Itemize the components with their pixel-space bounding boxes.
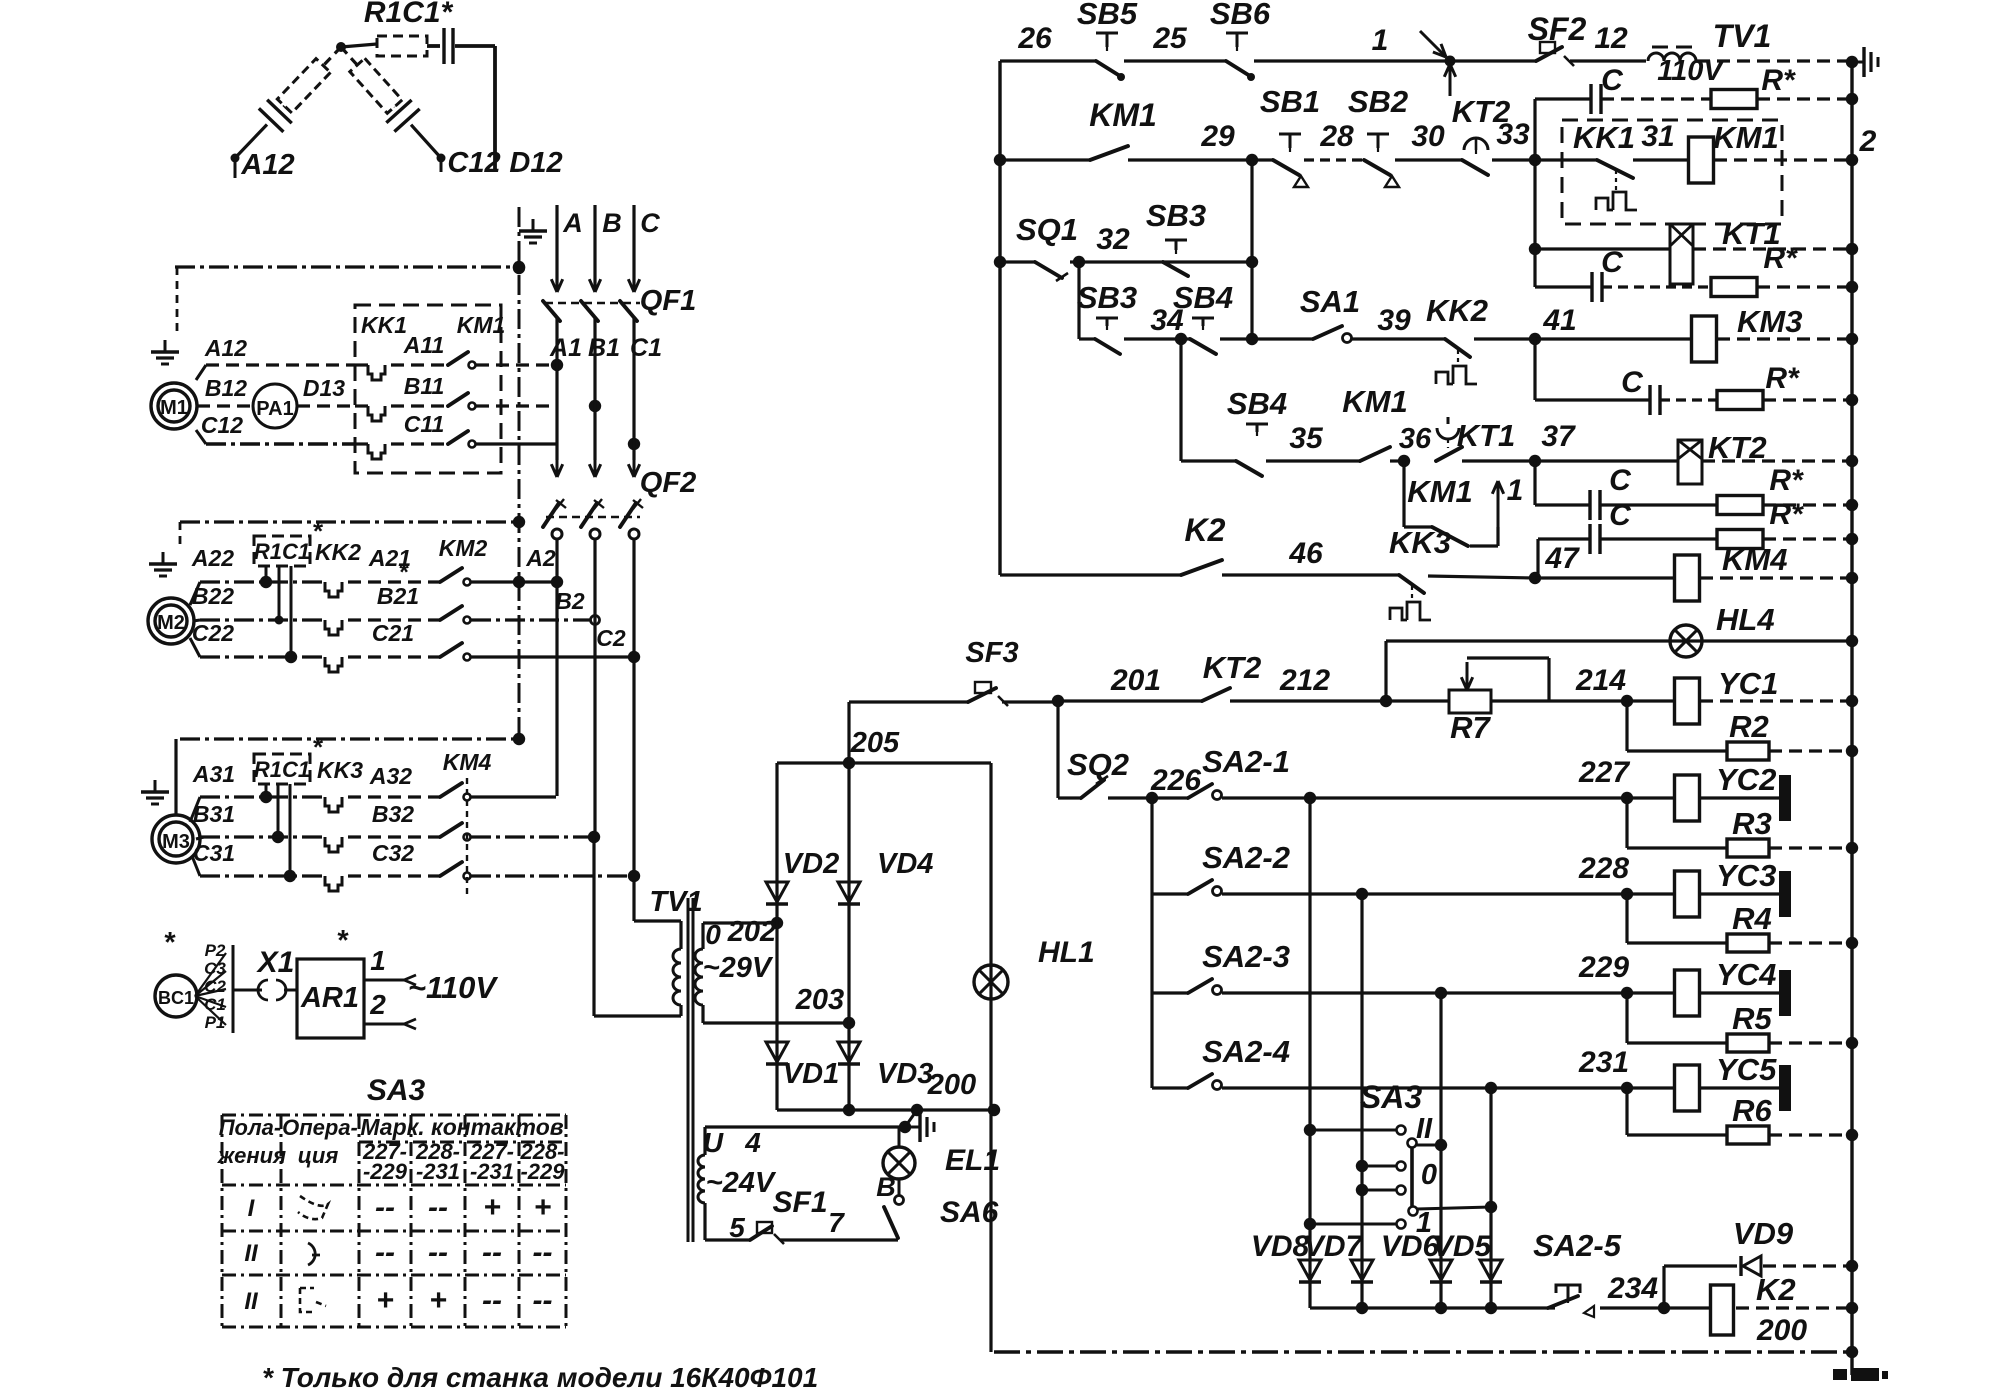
svg-text:TV1: TV1 (649, 886, 702, 918)
svg-text:A1: A1 (549, 334, 582, 362)
svg-text:VD5: VD5 (1433, 1230, 1493, 1263)
svg-text:C2: C2 (204, 977, 226, 996)
svg-text:*: * (337, 925, 349, 957)
svg-text:227: 227 (1578, 756, 1630, 789)
svg-text:25: 25 (1152, 22, 1188, 55)
svg-text:VD2: VD2 (783, 848, 839, 880)
svg-text:0: 0 (1421, 1159, 1437, 1191)
svg-text:B1: B1 (588, 334, 620, 362)
svg-text:C32: C32 (372, 840, 414, 866)
svg-text:5: 5 (729, 1212, 745, 1243)
svg-text:0: 0 (705, 919, 721, 950)
svg-text:II: II (244, 1288, 259, 1315)
svg-text:SA3: SA3 (1360, 1079, 1422, 1115)
svg-text:-231: -231 (416, 1159, 460, 1184)
svg-text:II: II (1416, 1113, 1433, 1145)
svg-text:II: II (244, 1240, 259, 1267)
svg-text:M1: M1 (160, 397, 188, 419)
svg-text:-229: -229 (520, 1159, 565, 1184)
svg-text:TV1: TV1 (1713, 18, 1772, 54)
svg-text:B22: B22 (192, 583, 234, 609)
svg-text:R1C1: R1C1 (254, 757, 310, 782)
svg-text:-231: -231 (470, 1159, 514, 1184)
svg-text:--: -- (428, 1191, 448, 1224)
svg-text:202: 202 (727, 916, 776, 948)
svg-text:31: 31 (1641, 120, 1674, 153)
svg-text:SA6: SA6 (940, 1196, 999, 1229)
svg-text:231: 231 (1578, 1046, 1629, 1079)
svg-text:SA2-2: SA2-2 (1202, 840, 1290, 875)
svg-text:YC3: YC3 (1716, 858, 1776, 893)
svg-text:R2: R2 (1729, 709, 1769, 744)
svg-text:M3: M3 (162, 831, 190, 853)
svg-text:HL1: HL1 (1038, 936, 1095, 969)
svg-text:M2: M2 (157, 612, 185, 634)
svg-text:VD9: VD9 (1733, 1216, 1794, 1251)
svg-text:KM3: KM3 (1737, 304, 1802, 339)
svg-text:C1: C1 (630, 334, 662, 362)
svg-text:226: 226 (1150, 764, 1201, 797)
svg-text:37: 37 (1541, 420, 1576, 453)
svg-text:Опера-: Опера- (282, 1115, 358, 1140)
svg-text:* Только для станка модели 16К: * Только для станка модели 16К40Ф101 (262, 1362, 818, 1393)
svg-text:SQ2: SQ2 (1067, 747, 1129, 782)
svg-text:YC5: YC5 (1716, 1052, 1777, 1087)
svg-text:C31: C31 (193, 840, 235, 866)
svg-text:VD6: VD6 (1381, 1230, 1440, 1263)
svg-text:1: 1 (1507, 474, 1524, 507)
svg-text:A2: A2 (525, 545, 556, 571)
svg-text:234: 234 (1607, 1272, 1658, 1305)
svg-text:--: -- (533, 1284, 553, 1317)
svg-text:--: -- (482, 1236, 502, 1269)
svg-text:Марк. контактов: Марк. контактов (360, 1114, 563, 1140)
svg-text:C: C (1609, 499, 1632, 532)
svg-text:2: 2 (369, 989, 386, 1020)
svg-text:R7: R7 (1450, 710, 1491, 745)
svg-text:Пола-: Пола- (219, 1115, 282, 1140)
svg-text:229: 229 (1578, 951, 1629, 984)
svg-text:--: -- (533, 1236, 553, 1269)
svg-text:C: C (1601, 246, 1624, 279)
svg-text:26: 26 (1017, 22, 1052, 55)
svg-text:KK3: KK3 (1389, 525, 1451, 560)
svg-text:--: -- (375, 1191, 395, 1224)
svg-text:K2: K2 (1185, 512, 1226, 548)
svg-text:32: 32 (1096, 223, 1130, 256)
svg-text:C: C (1621, 366, 1644, 399)
svg-text:SA2-4: SA2-4 (1202, 1034, 1290, 1069)
svg-text:A22: A22 (191, 545, 234, 571)
svg-text:-229: -229 (363, 1159, 408, 1184)
svg-text:C: C (1601, 64, 1624, 97)
svg-text:R*: R* (1763, 242, 1798, 275)
svg-text:SB3: SB3 (1146, 198, 1206, 233)
svg-text:C21: C21 (372, 620, 414, 646)
svg-text:B: B (602, 208, 622, 238)
svg-text:KT2: KT2 (1203, 650, 1262, 685)
svg-text:R*: R* (1765, 362, 1800, 395)
svg-text:+: + (429, 1284, 447, 1317)
svg-text:SQ1: SQ1 (1016, 212, 1078, 247)
svg-text:SF2: SF2 (1528, 11, 1587, 47)
svg-text:EL1: EL1 (945, 1144, 1000, 1177)
svg-text:205: 205 (850, 727, 900, 759)
svg-text:7: 7 (828, 1207, 845, 1238)
svg-text:--: -- (482, 1284, 502, 1317)
svg-text:+: + (483, 1191, 501, 1224)
svg-text:KK3: KK3 (317, 757, 363, 783)
svg-text:YC2: YC2 (1716, 762, 1776, 797)
svg-text:KK2: KK2 (315, 539, 361, 565)
svg-text:--: -- (375, 1236, 395, 1269)
svg-text:~29V: ~29V (703, 952, 774, 984)
svg-text:R*: R* (1769, 498, 1804, 531)
svg-text:B32: B32 (372, 801, 414, 827)
svg-text:C1: C1 (204, 995, 226, 1014)
svg-text:жения: жения (217, 1143, 286, 1168)
svg-text:U: U (703, 1127, 724, 1158)
svg-text:SA2-5: SA2-5 (1533, 1228, 1622, 1263)
svg-text:4: 4 (744, 1127, 761, 1158)
svg-text:QF1: QF1 (640, 285, 696, 317)
svg-text:+: + (376, 1284, 394, 1317)
svg-text:R4: R4 (1732, 901, 1772, 936)
svg-text:SA3: SA3 (367, 1074, 426, 1107)
svg-text:ция: ция (298, 1143, 339, 1168)
svg-text:P2: P2 (205, 941, 226, 960)
svg-text:VD4: VD4 (877, 848, 933, 880)
svg-text:KM1: KM1 (1713, 120, 1778, 155)
svg-text:A12: A12 (204, 335, 247, 361)
svg-text:39: 39 (1377, 304, 1411, 337)
svg-text:KM4: KM4 (1722, 542, 1787, 577)
svg-text:12: 12 (1594, 22, 1628, 55)
svg-text:C: C (1609, 464, 1632, 497)
svg-text:P1: P1 (205, 1013, 226, 1032)
svg-text:R*: R* (1761, 64, 1796, 97)
svg-text:46: 46 (1288, 537, 1323, 570)
svg-text:B2: B2 (555, 588, 585, 614)
svg-text:C22: C22 (192, 620, 234, 646)
svg-text:SF3: SF3 (965, 637, 1018, 669)
svg-text:R1C1: R1C1 (254, 539, 310, 564)
svg-text:A12: A12 (240, 149, 294, 181)
svg-text:KK2: KK2 (1426, 293, 1488, 328)
svg-text:KM4: KM4 (443, 749, 492, 775)
svg-text:VD8: VD8 (1251, 1230, 1310, 1263)
svg-text:R3: R3 (1732, 806, 1772, 841)
svg-text:SA1: SA1 (1300, 284, 1360, 319)
svg-text:A11: A11 (403, 332, 445, 358)
svg-text:KK1: KK1 (1573, 120, 1635, 155)
svg-text:C11: C11 (404, 411, 445, 437)
svg-text:YC1: YC1 (1718, 666, 1778, 701)
svg-text:29: 29 (1200, 120, 1235, 153)
svg-text:C12: C12 (447, 147, 500, 179)
svg-text:AR1: AR1 (300, 982, 359, 1014)
svg-text:SB4: SB4 (1173, 280, 1233, 315)
svg-text:B21: B21 (377, 583, 419, 609)
svg-text:PA1: PA1 (256, 398, 293, 420)
svg-text:KM1: KM1 (1089, 97, 1157, 133)
svg-text:B31: B31 (193, 801, 235, 827)
svg-text:1: 1 (1372, 24, 1389, 57)
svg-text:YC4: YC4 (1716, 957, 1776, 992)
svg-text:R1C1*: R1C1* (364, 0, 454, 29)
svg-text:2: 2 (1859, 125, 1877, 158)
svg-text:212: 212 (1279, 664, 1330, 697)
svg-text:201: 201 (1110, 664, 1161, 697)
svg-text:41: 41 (1542, 304, 1576, 337)
svg-text:214: 214 (1575, 664, 1626, 697)
svg-text:HL4: HL4 (1716, 602, 1775, 637)
svg-text:KM1: KM1 (1342, 384, 1407, 419)
svg-text:C2: C2 (596, 625, 626, 651)
svg-text:*: * (164, 927, 176, 959)
svg-text:A: A (562, 208, 583, 238)
svg-text:SB3: SB3 (1077, 280, 1137, 315)
svg-text:200: 200 (927, 1069, 976, 1101)
svg-text:~24V: ~24V (706, 1167, 777, 1199)
svg-text:+: + (534, 1191, 552, 1224)
svg-text:D12: D12 (509, 147, 562, 179)
svg-text:R*: R* (1769, 464, 1804, 497)
svg-text:R6: R6 (1732, 1093, 1772, 1128)
svg-text:BC1: BC1 (158, 988, 194, 1008)
svg-text:A32: A32 (369, 763, 412, 789)
svg-text:VD3: VD3 (877, 1058, 933, 1090)
svg-text:36: 36 (1399, 423, 1432, 455)
svg-text:VD1: VD1 (783, 1058, 839, 1090)
svg-text:X1: X1 (256, 946, 295, 979)
svg-text:VD7: VD7 (1304, 1230, 1364, 1263)
svg-text:KT1: KT1 (1457, 418, 1516, 453)
svg-text:C3: C3 (204, 959, 226, 978)
svg-text:R5: R5 (1732, 1001, 1772, 1036)
svg-text:35: 35 (1289, 422, 1324, 455)
svg-text:SB6: SB6 (1210, 0, 1271, 31)
svg-text:30: 30 (1411, 120, 1445, 153)
svg-text:110V: 110V (1657, 55, 1725, 87)
svg-text:SB2: SB2 (1348, 84, 1408, 119)
svg-text:~110V: ~110V (408, 970, 499, 1005)
svg-text:SB1: SB1 (1260, 84, 1320, 119)
svg-text:47: 47 (1544, 542, 1580, 575)
svg-text:KM1: KM1 (1407, 474, 1472, 509)
svg-text:KM2: KM2 (439, 535, 488, 561)
svg-text:228: 228 (1578, 852, 1629, 885)
svg-text:KT2: KT2 (1708, 430, 1767, 465)
svg-text:33: 33 (1496, 118, 1530, 151)
svg-text:SB5: SB5 (1077, 0, 1138, 31)
svg-text:D13: D13 (303, 375, 345, 401)
svg-text:C12: C12 (201, 412, 243, 438)
svg-text:A31: A31 (192, 761, 235, 787)
svg-text:SF1: SF1 (772, 1186, 827, 1219)
svg-text:200: 200 (1756, 1314, 1807, 1347)
svg-text:QF2: QF2 (640, 467, 696, 499)
svg-text:SB4: SB4 (1227, 386, 1287, 421)
svg-text:203: 203 (795, 984, 844, 1016)
svg-text:B12: B12 (205, 375, 247, 401)
svg-text:B11: B11 (404, 373, 445, 399)
svg-text:--: -- (428, 1236, 448, 1269)
svg-text:C: C (640, 208, 660, 238)
svg-text:28: 28 (1319, 120, 1354, 153)
svg-text:KM1: KM1 (457, 312, 506, 338)
svg-text:1: 1 (370, 945, 386, 976)
svg-text:KK1: KK1 (361, 312, 407, 338)
svg-text:SA2-3: SA2-3 (1202, 939, 1290, 974)
svg-text:SA2-1: SA2-1 (1202, 744, 1290, 779)
